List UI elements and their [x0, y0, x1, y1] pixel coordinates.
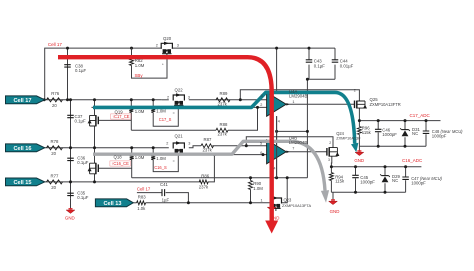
wire V- / R90 top run — [132, 177, 308, 179]
svg-text:R87: R87 — [204, 137, 212, 142]
wire C17_CE gate net — [98, 119, 131, 121]
svg-text:3: 3 — [328, 158, 330, 162]
op-amp U4A LM2904B — [267, 92, 287, 116]
resistor R88 237k — [216, 128, 228, 132]
wire C48 leads — [425, 121, 427, 131]
resistor R77 20 — [47, 180, 63, 184]
wire C41 to row13 — [166, 193, 189, 203]
wire C16_CE gate net — [98, 167, 131, 169]
wire C37/C36/C35 column — [70, 100, 72, 199]
svg-text:Cell 17: Cell 17 — [137, 186, 151, 191]
svg-text:R89: R89 — [220, 91, 228, 96]
wire C16 gnd stub — [332, 192, 334, 201]
svg-text:2: 2 — [260, 103, 262, 107]
connector Cell 15 — [6, 178, 45, 186]
wire R88 run to U4A inverting input — [131, 129, 216, 131]
resistor R89 237k — [216, 98, 230, 102]
wire R90 column — [250, 178, 252, 181]
wire box17 C17_S loop — [152, 100, 154, 108]
wire U4B in+ to Q24 source branch — [246, 137, 333, 148]
wire D29 leads — [384, 167, 386, 176]
capacitor C44 0.01uF — [332, 60, 339, 62]
wire C38 column — [67, 48, 69, 100]
svg-text:1.0M: 1.0M — [253, 186, 263, 191]
resistor R85 1.0M in C17_S box — [151, 107, 155, 112]
svg-text:3: 3 — [261, 94, 263, 98]
svg-text:GND: GND — [65, 215, 75, 220]
svg-text:NC: NC — [392, 178, 398, 183]
svg-text:↑C17_CE: ↑C17_CE — [112, 114, 130, 119]
svg-text:R78: R78 — [51, 139, 59, 144]
svg-text:NC: NC — [412, 131, 418, 136]
svg-text:1: 1 — [292, 100, 294, 104]
svg-text:1.0M: 1.0M — [135, 155, 145, 160]
wire row17 main — [39, 99, 162, 101]
resistor R94 115k — [329, 173, 333, 181]
svg-text:1.0M: 1.0M — [156, 156, 166, 161]
svg-text:R83: R83 — [138, 195, 146, 200]
wire row15 main — [39, 181, 201, 183]
svg-text:0.1µF: 0.1µF — [77, 160, 88, 165]
resistor R90 1.0M — [249, 181, 253, 190]
wire row17 switched (Q22 pin3 to U4A in+) — [189, 99, 267, 101]
transistor Q19 — [97, 117, 99, 125]
svg-text:1000pF: 1000pF — [382, 132, 397, 137]
svg-text:237k: 237k — [203, 148, 213, 153]
resistor R83 1.0k — [137, 201, 146, 205]
svg-text:0.1µF: 0.1µF — [75, 119, 86, 124]
svg-text:2: 2 — [354, 88, 356, 92]
wire R84 column row17 — [130, 100, 132, 108]
svg-text:115k: 115k — [335, 179, 345, 184]
resistor 1.0M in C16_S box — [151, 155, 155, 160]
capacitor C38 0.1uF — [64, 65, 71, 67]
wire 1.0M column row16 — [131, 148, 133, 155]
svg-text:1µF: 1µF — [162, 198, 170, 203]
svg-text:Q21: Q21 — [175, 133, 184, 138]
ground for C35 — [66, 210, 75, 213]
capacitor C35 0.1uF — [67, 193, 74, 195]
wire U4A pin4 vertical redrawn over U4B symbol — [276, 116, 278, 178]
wire U4A pin4 to Vminus rail — [277, 130, 308, 132]
wire C43C44 top leads — [308, 48, 310, 60]
svg-text:LM2904B: LM2904B — [289, 93, 308, 98]
svg-text:20: 20 — [52, 103, 57, 108]
SBy gate loop box — [132, 54, 168, 78]
svg-text:Cell 17: Cell 17 — [13, 98, 31, 104]
svg-text:1: 1 — [261, 198, 263, 202]
svg-text:=: = — [173, 159, 175, 163]
capacitor C36 0.1uF — [67, 158, 74, 160]
svg-text:SBy: SBy — [135, 73, 144, 78]
resistor R87 237k — [201, 144, 214, 148]
wire Q25 drain to C17_ADC — [358, 108, 360, 121]
svg-text:GND: GND — [330, 209, 340, 214]
net label C17_CE — [111, 114, 131, 119]
op-amp U4B LM2904B — [267, 140, 287, 164]
wire R94 leads — [330, 167, 332, 173]
wire C17 network bottom rail — [359, 145, 426, 147]
capacitor C43 0.1uF — [306, 60, 313, 62]
svg-text:4: 4 — [274, 166, 276, 170]
svg-text:Cell 15: Cell 15 — [13, 180, 31, 186]
wire red gnd stub under arrow — [271, 203, 273, 207]
svg-text:C16_ADC: C16_ADC — [402, 158, 423, 163]
resistor R78 20 — [47, 146, 63, 150]
transistor Q24 ZXMP10A13F — [326, 148, 328, 156]
svg-text:Cell 16: Cell 16 — [13, 146, 31, 152]
svg-text:GND: GND — [354, 158, 364, 163]
svg-text:237k: 237k — [218, 132, 228, 137]
capacitor C47 1000pF near MCU — [402, 177, 409, 179]
transistor Q23 ZXMP10A13FTA — [270, 198, 281, 204]
wire row16 main — [39, 147, 169, 149]
wire U4A in+ to Q25 source branch — [240, 90, 359, 101]
svg-text:1.0k: 1.0k — [137, 206, 146, 211]
svg-text:R77: R77 — [51, 173, 59, 178]
wire C16_ADC net — [331, 166, 421, 168]
svg-text:R88: R88 — [220, 122, 228, 127]
ground for C17 network — [355, 152, 364, 155]
resistor R86 237k — [199, 180, 208, 184]
svg-text:0.1µF: 0.1µF — [314, 63, 325, 68]
wire Q23 drain jog to V- run — [281, 178, 287, 203]
wire top rail right of Q20 — [172, 47, 335, 49]
svg-text:115k: 115k — [362, 130, 372, 135]
svg-text:2: 2 — [156, 43, 158, 47]
wire divider16 — [93, 154, 267, 156]
svg-text:C16_S: C16_S — [154, 165, 167, 170]
wire SBy net horizontal under red path — [68, 56, 248, 58]
svg-text:0.01µF: 0.01µF — [340, 63, 354, 68]
svg-text:↑C16_CE: ↑C16_CE — [111, 161, 129, 166]
wire U4A V- pin4 column — [276, 116, 278, 178]
svg-text:Cell 13: Cell 13 — [103, 201, 121, 207]
svg-text:4: 4 — [278, 120, 280, 124]
svg-text:ZXMP10A13FTR: ZXMP10A13FTR — [370, 102, 401, 107]
svg-text:Q20: Q20 — [163, 36, 172, 41]
wire U4B output to Q24 gate — [286, 151, 327, 153]
svg-text:Q18: Q18 — [114, 155, 123, 160]
transistor Q22 — [173, 95, 184, 101]
svg-text:Q22: Q22 — [175, 88, 184, 93]
transistor Q25 ZXMP10A13FTR — [354, 101, 356, 109]
svg-text:3: 3 — [188, 95, 190, 99]
ground for C16 network — [329, 201, 338, 204]
wire Q24 drain to C16_ADC — [330, 156, 332, 167]
connector Cell 17 — [6, 96, 45, 104]
wire U4A output to Q25 gate — [286, 103, 354, 105]
svg-text:Cell 17: Cell 17 — [48, 42, 63, 47]
wire C16 network bottom rail — [331, 191, 405, 193]
svg-text:R86: R86 — [201, 174, 209, 179]
svg-text:C17_ADC: C17_ADC — [410, 113, 431, 118]
svg-text:0.1µF: 0.1µF — [77, 195, 88, 200]
ground at red path — [267, 207, 276, 210]
svg-text:R76: R76 — [51, 91, 59, 96]
svg-text:237k: 237k — [199, 184, 209, 189]
wire divider17 — [92, 106, 267, 108]
connector Cell 16 — [6, 144, 45, 152]
capacitor C41 1uF — [162, 189, 165, 196]
svg-text:ZXMP10A13F: ZXMP10A13F — [336, 136, 361, 141]
capacitor C45 1000pF — [352, 175, 359, 177]
wire row16 switched Q21 to R87 to U4B in+ — [189, 146, 201, 148]
svg-text:ZXMP10A13FTA: ZXMP10A13FTA — [282, 203, 312, 208]
wire Cell13 row — [133, 202, 136, 204]
wire C47 leads — [405, 167, 407, 177]
wire Cell17 flag stub at C41 — [137, 192, 162, 194]
net label C16_CE — [110, 161, 130, 166]
wire C35 gnd stub — [70, 198, 72, 209]
resistor R82 1.0M — [131, 48, 133, 57]
wire C17_ADC net — [359, 120, 440, 122]
svg-text:7: 7 — [292, 146, 294, 150]
wire Vminus rail vertical — [306, 79, 308, 178]
wire Q18 source to row15 — [94, 174, 96, 182]
transistor Q18 — [97, 164, 99, 172]
wire U4A V+ pin8 — [276, 48, 278, 92]
transistor Q20 — [161, 43, 172, 49]
svg-text:5: 5 — [260, 142, 262, 146]
wire D31 leads — [404, 121, 406, 130]
capacitor C46 1000pF — [375, 129, 382, 131]
resistor 1.0M row16 pull — [130, 155, 134, 160]
svg-text:20: 20 — [51, 151, 56, 156]
wire Q18 drain column — [94, 148, 96, 163]
svg-text:2: 2 — [166, 141, 168, 145]
svg-text:1.0M: 1.0M — [135, 109, 145, 114]
svg-text:Q23: Q23 — [284, 198, 292, 203]
svg-text:1000pF: 1000pF — [411, 181, 426, 186]
capacitor C48 1000pF near MCU — [423, 131, 430, 133]
svg-text:2: 2 — [167, 95, 169, 99]
wire R86 to U4B inverting input — [208, 155, 215, 182]
junction dots — [43, 98, 46, 101]
wire box16 C16_S loop — [152, 148, 154, 155]
svg-text:C41: C41 — [160, 182, 168, 187]
svg-text:2: 2 — [329, 141, 331, 145]
svg-text:=: = — [173, 112, 175, 116]
gray current path overlay — [93, 141, 325, 190]
capacitor C37 0.1uF — [67, 115, 74, 117]
wire R96 leads — [358, 121, 360, 127]
diode D29 NC — [380, 174, 390, 177]
svg-text:3: 3 — [177, 43, 179, 47]
wire Q19 drain column — [94, 100, 96, 116]
transistor Q21 — [173, 143, 184, 149]
connector Cell 13 — [95, 199, 133, 207]
teal current path overlay — [93, 92, 355, 143]
svg-text:0.1µF: 0.1µF — [75, 68, 86, 73]
svg-text:1000pF: 1000pF — [360, 180, 375, 185]
wire C45 leads — [355, 167, 357, 176]
diode D31 NC — [400, 128, 410, 131]
wire Cell17 top rail — [45, 48, 162, 100]
svg-text:C17_S: C17_S — [159, 117, 172, 122]
wire C43C44 bottom — [308, 65, 310, 80]
svg-text:20: 20 — [51, 185, 56, 190]
red current path overlay — [58, 57, 272, 220]
svg-text:3: 3 — [188, 141, 190, 145]
svg-text:1.0M: 1.0M — [135, 63, 145, 68]
svg-text:6: 6 — [260, 151, 262, 155]
svg-text:1.0M: 1.0M — [156, 109, 166, 114]
wire Q19 source to row16 — [94, 126, 96, 148]
resistor R84 1.0M — [129, 107, 133, 112]
svg-text:1000pF: 1000pF — [432, 134, 447, 139]
svg-text:LM2904B: LM2904B — [289, 140, 308, 145]
resistor R96 115k — [357, 127, 361, 135]
resistor R76 20 — [47, 98, 63, 102]
svg-text:237k: 237k — [218, 102, 228, 107]
wire C46 leads — [377, 121, 379, 130]
